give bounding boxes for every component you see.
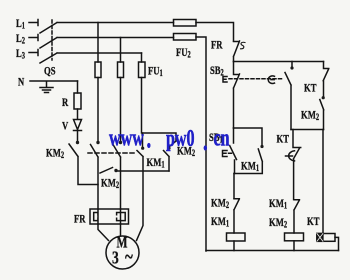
- svg-text:V: V: [62, 120, 69, 133]
- svg-text:L1: L1: [16, 18, 25, 31]
- svg-text:KM2: KM2: [211, 197, 229, 210]
- svg-text:.: .: [203, 127, 208, 158]
- svg-text:.: .: [147, 124, 152, 155]
- svg-text:KM1: KM1: [147, 157, 165, 170]
- svg-text:SB2: SB2: [210, 65, 224, 78]
- svg-text:KM1: KM1: [241, 160, 259, 173]
- svg-text:FR: FR: [74, 213, 86, 226]
- svg-text:pw0: pw0: [166, 126, 195, 152]
- svg-text:FU1: FU1: [148, 65, 163, 78]
- svg-text:KM2: KM2: [269, 217, 287, 230]
- svg-text:FR: FR: [211, 39, 223, 52]
- svg-text:L3: L3: [16, 48, 25, 61]
- svg-text:KM2: KM2: [301, 109, 319, 122]
- svg-text:~: ~: [125, 245, 133, 268]
- svg-text:KT: KT: [277, 133, 289, 146]
- svg-text:FU2: FU2: [176, 47, 191, 60]
- svg-text:L2: L2: [16, 33, 25, 46]
- svg-text:KM2: KM2: [101, 177, 119, 190]
- svg-text:3: 3: [112, 249, 119, 268]
- svg-text:N: N: [18, 76, 25, 89]
- svg-text:KM1: KM1: [211, 216, 229, 229]
- svg-text:R: R: [62, 97, 69, 110]
- svg-text:www: www: [109, 126, 144, 152]
- svg-text:KT: KT: [307, 216, 319, 229]
- svg-text:QS: QS: [44, 65, 56, 78]
- svg-text:KT: KT: [304, 82, 316, 95]
- svg-text:KM2: KM2: [46, 147, 64, 160]
- svg-text:cn: cn: [214, 126, 231, 152]
- svg-text:KM1: KM1: [269, 198, 287, 211]
